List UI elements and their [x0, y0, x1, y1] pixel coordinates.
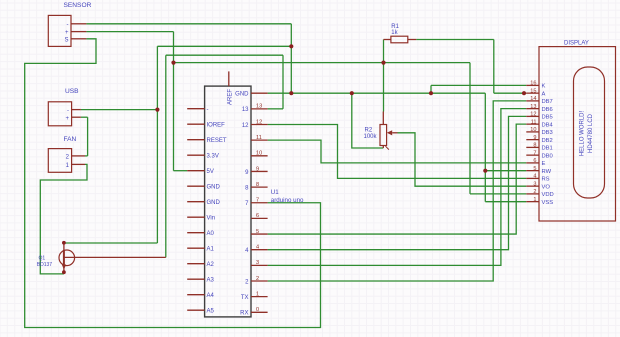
svg-text:DB3: DB3: [542, 130, 553, 136]
pin DB0 stub (display): [526, 154, 539, 156]
svg-text:DB0: DB0: [542, 153, 553, 159]
wire 5V down to R2 top: [383, 63, 385, 112]
svg-text:arduino uno: arduino uno: [271, 197, 304, 204]
pin A5 stub (left 14): [187, 309, 204, 311]
svg-text:GND: GND: [207, 185, 221, 191]
connector USB box: [48, 102, 71, 126]
pin DB7 stub (display): [526, 100, 539, 102]
pin - stub (left 1): [187, 108, 204, 110]
wire vertical drop x291: [290, 24, 292, 93]
pin VDD stub (display): [526, 193, 539, 195]
connector FAN box: [48, 149, 71, 173]
junction RW/GND vertical: [483, 169, 487, 173]
wire to RW pin 5: [485, 170, 526, 172]
svg-text:6: 6: [533, 158, 536, 164]
svg-text:A4: A4: [207, 293, 215, 299]
wire net GND: sensor pin - to top right: [86, 23, 291, 25]
pin 5 stub (right): [251, 233, 268, 235]
svg-text:9: 9: [256, 166, 259, 172]
pin A stub (display): [526, 92, 539, 94]
svg-text:6: 6: [256, 213, 259, 219]
Q1 emitter lead: [63, 265, 65, 271]
usb pin - stub: [72, 109, 81, 111]
svg-text:14: 14: [530, 96, 536, 102]
R1 left lead: [384, 39, 391, 41]
svg-text:A2: A2: [207, 262, 215, 268]
wire to VDD pin 2: [470, 193, 526, 195]
wire to A pin 15: [494, 92, 527, 94]
wire vertical x470 to VDD: [469, 63, 471, 194]
pin 11 stub (right): [251, 139, 268, 141]
wire K branch up: [430, 85, 432, 93]
pin 9 stub (right): [251, 170, 268, 172]
svg-text:A1: A1: [207, 247, 215, 253]
pin DB3 stub (display): [526, 131, 539, 133]
svg-text:12: 12: [256, 119, 262, 125]
svg-text:3: 3: [256, 260, 259, 266]
wire net GND horizontal y46: [157, 45, 291, 47]
wire vertical B x165 to Q1 base: [165, 55, 167, 257]
svg-text:5V: 5V: [207, 169, 214, 175]
pin AREF stub (top): [228, 71, 230, 86]
wire 5V horizontal y62: [174, 62, 471, 64]
wire to arduino 5V pin: [174, 170, 188, 172]
wire vertical A x157 (GND net): [156, 46, 158, 243]
pin A1 stub (left 10): [187, 247, 204, 249]
svg-text:13: 13: [256, 104, 262, 110]
wire R2 bottom to GND line: [352, 93, 384, 148]
wire to FAN pin 2: [85, 155, 88, 157]
svg-text:RW: RW: [542, 169, 552, 175]
svg-text:0: 0: [256, 307, 259, 313]
pin VO stub (display): [526, 185, 539, 187]
pin A3 stub (left 12): [187, 278, 204, 280]
Q1 emitter arrow: [62, 265, 66, 270]
pin E stub (display): [526, 162, 539, 164]
svg-text:GND: GND: [235, 92, 249, 98]
svg-text:A: A: [542, 91, 546, 97]
svg-text:HELLO WORLD!: HELLO WORLD!: [580, 110, 586, 156]
pin 3.3V stub (left 4): [187, 154, 204, 156]
svg-text:-: -: [67, 22, 69, 28]
junction K branch/GND line: [429, 91, 433, 95]
pin 12 stub (right): [251, 124, 268, 126]
svg-text:1: 1: [256, 291, 259, 297]
svg-text:5: 5: [533, 166, 536, 172]
svg-text:A0: A0: [207, 231, 215, 237]
pin GND stub (right): [251, 92, 268, 94]
wire arduino pin 4 to DB5 pin 12: [268, 116, 527, 249]
pin DB2 stub (display): [526, 139, 539, 141]
wire pin 13 stub link: [268, 108, 283, 110]
fan pin 2 stub: [72, 155, 85, 157]
svg-text:R2: R2: [365, 127, 373, 133]
wire net 5V: sensor pin + right: [86, 31, 173, 33]
svg-text:+: +: [65, 30, 69, 36]
resistor R1 body: [391, 36, 408, 43]
svg-text:5: 5: [256, 229, 259, 235]
svg-text:13: 13: [242, 107, 249, 113]
wire to VSS pin 1: [485, 201, 526, 203]
pin 6 stub (right): [251, 217, 268, 219]
wire to K pin 16: [431, 84, 526, 86]
svg-text:2: 2: [256, 276, 259, 282]
svg-text:U1: U1: [271, 189, 279, 196]
junction GND line x291: [289, 91, 293, 95]
svg-text:A5: A5: [207, 309, 215, 315]
pin 10 stub (right): [251, 155, 268, 157]
lcd glass outline: [574, 67, 605, 198]
pin 2 stub (right): [251, 280, 268, 282]
svg-text:AREF: AREF: [228, 89, 234, 105]
svg-text:3: 3: [533, 181, 536, 187]
wire R2 wiper to VO pin 3: [398, 133, 527, 186]
pin DB6 stub (display): [526, 108, 539, 110]
wire vertical GND x485: [484, 93, 486, 202]
svg-text:2: 2: [533, 189, 536, 195]
junction USB-/GND vertical: [155, 108, 159, 112]
pin K stub (display): [526, 84, 539, 86]
svg-text:BD137: BD137: [37, 262, 53, 268]
wire arduino pin 12 to RS pin 4: [268, 125, 527, 179]
svg-text:VDD: VDD: [542, 192, 554, 198]
svg-text:Q1: Q1: [39, 255, 46, 261]
junction sensor- /y46: [289, 44, 293, 48]
pin VSS stub (display): [526, 201, 539, 203]
pin A2 stub (left 11): [187, 263, 204, 265]
pin GND stub (left 6): [187, 185, 204, 187]
svg-text:DB1: DB1: [542, 146, 553, 152]
svg-text:GND: GND: [207, 200, 221, 206]
pin DB5 stub (display): [526, 115, 539, 117]
svg-text:100k: 100k: [364, 134, 378, 140]
svg-text:RS: RS: [542, 177, 550, 183]
svg-text:DB7: DB7: [542, 99, 553, 105]
wire FAN pin 1 to Q1 emitter: [40, 164, 87, 274]
R2 wiper arrow: [387, 130, 392, 135]
svg-text:FAN: FAN: [64, 136, 77, 143]
svg-text:10: 10: [256, 151, 262, 157]
wire vertical C x173 (5V): [173, 32, 175, 171]
connector SENSOR box: [48, 15, 71, 46]
svg-text:4: 4: [256, 245, 259, 251]
junction 5V vertical/horizontal: [171, 61, 175, 65]
pin RESET stub (left 3): [187, 139, 204, 141]
svg-text:11: 11: [256, 135, 262, 141]
wire USB + right: [81, 116, 88, 118]
svg-text:11: 11: [531, 119, 537, 125]
R1 right lead: [408, 39, 417, 41]
svg-text:8: 8: [256, 182, 259, 188]
svg-text:DB4: DB4: [542, 122, 554, 128]
pin Vin stub (left 8): [187, 216, 204, 218]
svg-text:15: 15: [530, 88, 536, 94]
pin 4 stub (right): [251, 249, 268, 251]
wire vertical x283 to pin 13: [282, 55, 284, 109]
sensor pin + stub: [71, 31, 86, 33]
wire net sensor S to arduino pin 7: [25, 39, 321, 328]
svg-text:7: 7: [256, 198, 259, 204]
svg-text:8: 8: [533, 143, 536, 149]
svg-text:9: 9: [533, 135, 536, 141]
junction Q1 emitter: [62, 270, 66, 274]
pin 8 stub (right): [251, 186, 268, 188]
svg-text:S: S: [64, 37, 68, 43]
R2 top lead: [382, 112, 384, 125]
wire arduino pin 11 to E pin 6: [268, 140, 527, 163]
svg-text:1k: 1k: [391, 30, 398, 36]
pin DB4 stub (display): [526, 123, 539, 125]
wire R1 down to A: [493, 40, 495, 94]
junction R1-R2 / 5V line: [381, 61, 385, 65]
wire R1 right: [416, 39, 494, 41]
svg-text:SENSOR: SENSOR: [64, 2, 92, 9]
pin A0 stub (left 9): [187, 232, 204, 234]
wire R1 left down to 5V: [383, 40, 385, 63]
pin 5V stub (left 5): [187, 170, 204, 172]
svg-text:R1: R1: [391, 24, 399, 30]
pin RW stub (display): [526, 170, 539, 172]
pin 3 stub (right): [251, 264, 268, 266]
R2 bottom lead: [382, 146, 384, 149]
svg-text:DB6: DB6: [542, 107, 553, 113]
pin A4 stub (left 13): [187, 294, 204, 296]
wire USB - to vertical A: [81, 109, 157, 111]
pin RS stub (display): [526, 177, 539, 179]
svg-text:4: 4: [533, 174, 536, 180]
svg-text:DISPLAY: DISPLAY: [564, 41, 589, 47]
pin GND stub (left 7): [187, 201, 204, 203]
svg-text:+: +: [65, 116, 69, 122]
svg-text:12: 12: [242, 123, 249, 129]
Q1 base lead wire (red): [64, 256, 166, 258]
pin DB1 stub (display): [526, 146, 539, 148]
sensor pin S stub: [71, 38, 86, 40]
wire arduino pin 3 to DB6 pin 13: [268, 109, 527, 266]
potentiometer R2 body: [380, 125, 387, 146]
svg-text:3.3V: 3.3V: [207, 154, 219, 160]
svg-text:7: 7: [533, 150, 536, 156]
svg-text:-: -: [207, 107, 209, 113]
pin 7 stub (right): [251, 202, 268, 204]
wire to Q1 collector: [64, 242, 157, 244]
wire net pin13 horizontal y55: [166, 54, 283, 56]
svg-text:DB5: DB5: [542, 115, 553, 121]
svg-text:USB: USB: [65, 88, 79, 95]
svg-text:TX: TX: [241, 295, 249, 301]
svg-text:RESET: RESET: [207, 138, 227, 144]
junction Q1 collector: [62, 241, 66, 245]
svg-text:IOREF: IOREF: [207, 123, 226, 129]
svg-text:16: 16: [530, 81, 536, 87]
sensor pin - stub: [71, 23, 86, 25]
Q1 collector lead: [63, 242, 65, 250]
pin TX stub (right): [251, 296, 268, 298]
R2 wiper lead: [392, 132, 397, 134]
fan pin 1 stub: [72, 163, 85, 165]
transistor Q1: [59, 250, 75, 266]
svg-text:12: 12: [530, 112, 536, 118]
svg-text:VSS: VSS: [542, 200, 554, 206]
wire arduino pin 2 to DB7 pin 14: [268, 101, 527, 281]
wire USB + down: [87, 117, 89, 156]
svg-text:VO: VO: [542, 184, 551, 190]
wire arduino GND to display column: [268, 92, 486, 94]
svg-text:1: 1: [533, 197, 536, 203]
svg-text:13: 13: [530, 104, 536, 110]
svg-text:K: K: [542, 84, 546, 90]
wire arduino pin 5 to DB4 pin 11: [268, 124, 527, 234]
ic U1 arduino uno box: [205, 86, 251, 317]
svg-text:10: 10: [530, 127, 536, 133]
svg-text:A3: A3: [207, 278, 215, 284]
junction R2 bottom/GND line: [350, 91, 354, 95]
lcd DISPLAY box: [539, 47, 616, 221]
svg-text:DB2: DB2: [542, 138, 553, 144]
svg-text:E: E: [542, 161, 546, 167]
Q1 base bar: [63, 250, 65, 265]
svg-text:HD44780 LCD: HD44780 LCD: [588, 113, 594, 153]
svg-text:-: -: [67, 108, 69, 114]
svg-text:Vin: Vin: [207, 216, 216, 222]
svg-text:RX: RX: [240, 311, 248, 317]
pin 13 stub (right): [251, 108, 268, 110]
pin IOREF stub (left 2): [187, 123, 204, 125]
junction at display pin 15: [522, 91, 526, 95]
pin RX stub (right): [251, 311, 268, 313]
usb pin + stub: [72, 116, 81, 118]
